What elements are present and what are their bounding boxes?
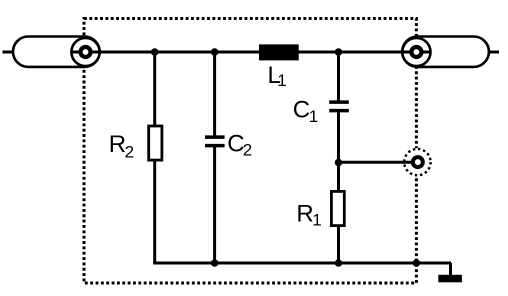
wire: chord through J1 circle [71, 51, 100, 54]
capacitor C1 plates [329, 100, 349, 104]
wire: chord through J2 circle [402, 51, 431, 54]
node A (L1/C1 junction) [335, 48, 343, 56]
wire: bottom horizontal line [153, 262, 451, 265]
svg-text:2: 2 [243, 141, 252, 160]
capacitor C2 plates [205, 135, 225, 139]
connector J2 (right coax) body [402, 37, 489, 67]
connector J2 outer circle [402, 38, 430, 66]
svg-text:2: 2 [125, 142, 134, 161]
svg-text:C: C [293, 97, 310, 124]
test point terminal [413, 157, 423, 167]
wire: C2 vertical branch upper [213, 52, 216, 136]
wire: top horizontal line [3, 51, 500, 54]
node (R2 top junction) [151, 48, 159, 56]
connector J2 center pin [409, 45, 423, 59]
wire: R2 vertical branch [153, 52, 156, 263]
erase dotted line behind test point [403, 148, 431, 176]
node (C2 top junction) [211, 48, 219, 56]
node (R1 bottom junction) [335, 259, 343, 267]
node (enclosure bottom junction) [413, 259, 421, 267]
wire: C1 to node [337, 112, 340, 163]
svg-text:1: 1 [309, 107, 318, 126]
wire: C1 vertical branch upper [337, 52, 340, 101]
resistor R2 [149, 126, 162, 160]
resistor R1 [331, 191, 344, 225]
svg-text:R: R [296, 200, 313, 227]
connector J1 outer circle [71, 38, 99, 66]
ground [438, 275, 462, 283]
wire: R1 vertical branch [337, 163, 340, 264]
svg-text:1: 1 [312, 210, 321, 229]
wire: ground stub [449, 263, 452, 276]
node (C2 bottom junction) [211, 259, 219, 267]
inductor L1 (ferrite bead block) [259, 44, 299, 60]
wire: node to test point [339, 161, 412, 164]
node (C1/R1 junction) [335, 159, 343, 167]
test point dotted ring [404, 149, 430, 175]
svg-text:R: R [109, 131, 126, 158]
svg-text:1: 1 [277, 71, 286, 90]
connector J1 center pin [78, 45, 92, 59]
dotted enclosure border [84, 19, 416, 284]
wire: C2 vertical branch lower [213, 147, 216, 263]
connector J1 (left coax) body [13, 37, 100, 67]
